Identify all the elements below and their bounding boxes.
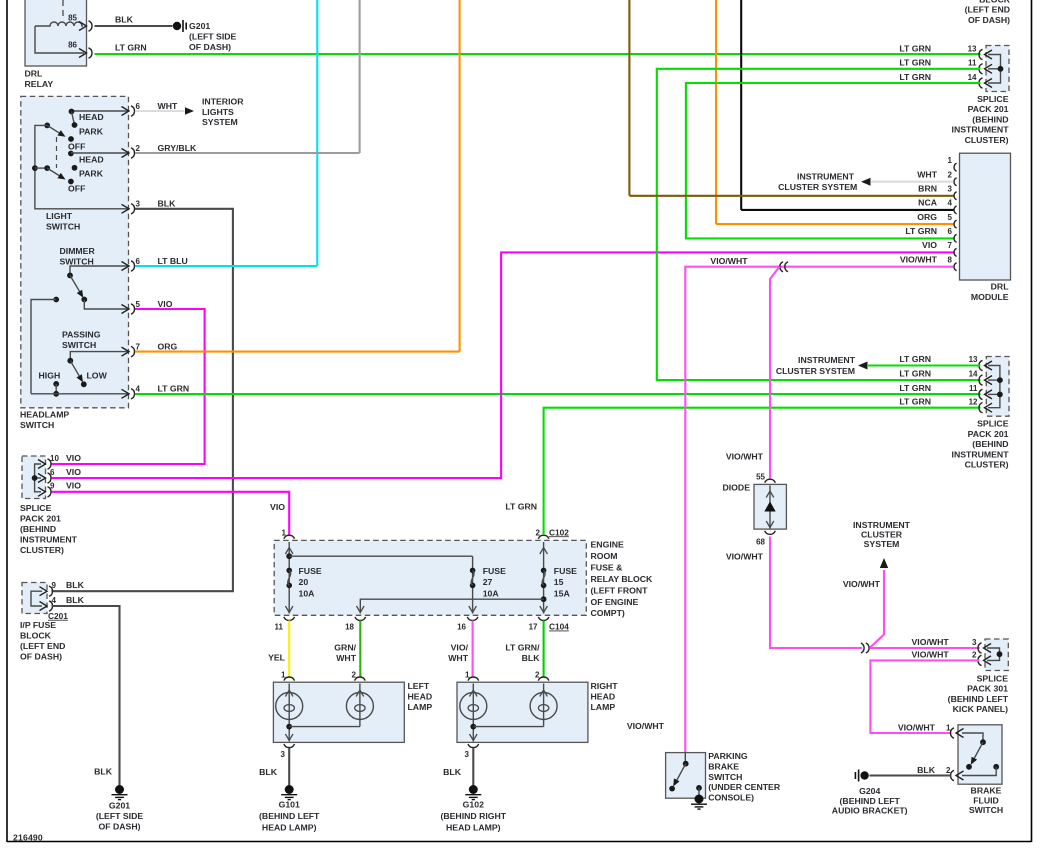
svg-text:3: 3	[281, 750, 286, 759]
pin18 down arrow	[357, 606, 365, 613]
wire VIO pin5 to splice pack 201 pin 10	[52, 309, 205, 464]
svg-text:INSTRUMENT: INSTRUMENT	[798, 355, 856, 365]
parking brake blade arrow	[670, 778, 679, 788]
svg-text:WHT: WHT	[158, 101, 178, 111]
DRL module pin 7 arc	[954, 248, 957, 256]
svg-text:2: 2	[948, 171, 953, 180]
splice BR pin 14 connector	[979, 375, 992, 385]
dimmer lower contact to pin5	[84, 300, 129, 310]
diode pin 55 connector	[765, 479, 776, 483]
right lamp junction	[470, 724, 476, 730]
headlamp switch box	[21, 96, 129, 407]
DRL module pin 2 arc	[954, 178, 957, 186]
parking brake ground symbol	[691, 795, 707, 810]
svg-text:1: 1	[948, 156, 953, 165]
svg-text:BLK: BLK	[66, 580, 85, 590]
splice BR pin 11 connector	[979, 389, 992, 399]
fuse block internal wire to pin 18	[360, 599, 543, 613]
svg-text:LT GRN: LT GRN	[899, 369, 931, 379]
left lamp bulb 2	[346, 693, 373, 720]
svg-text:1: 1	[946, 724, 951, 733]
DRL module pin 3 arc	[954, 192, 957, 200]
splice pack 201 left box	[22, 456, 46, 499]
inline connector before splice 301	[861, 643, 869, 653]
wire LT GRN splice TR pin11 to splice BR pin14	[657, 69, 981, 380]
light switch common contact	[44, 123, 50, 129]
svg-text:VIO/WHT: VIO/WHT	[843, 579, 881, 589]
ground G101 symbol	[281, 785, 297, 800]
svg-text:14: 14	[968, 73, 977, 82]
DRL module pin 8 arc	[954, 263, 957, 271]
svg-text:CLUSTER SYSTEM: CLUSTER SYSTEM	[776, 366, 855, 376]
svg-text:DIMMERSWITCH: DIMMERSWITCH	[60, 246, 96, 266]
parking brake top contact	[683, 761, 689, 767]
svg-text:C102: C102	[549, 527, 569, 537]
left lamp bulb1 internal line	[288, 684, 290, 742]
wire BLK left lamp pin3 to G101	[288, 748, 290, 786]
splice TR bracket middle stub	[988, 68, 1001, 70]
wire VIO/WHT fuse block pin16 to right head lamp	[472, 621, 474, 678]
svg-text:VIO/WHT: VIO/WHT	[912, 650, 950, 660]
fuse15 down arrow	[540, 606, 548, 613]
svg-text:10: 10	[50, 454, 59, 463]
svg-text:2: 2	[535, 671, 540, 680]
parking brake right contact	[696, 785, 702, 791]
dimmer common contact	[53, 297, 59, 303]
svg-text:LT GRN: LT GRN	[899, 383, 931, 393]
fuse 20 internal vertical	[288, 542, 290, 614]
brake fluid right contact	[993, 764, 999, 770]
wire ORG vertical from top edge to DRL module	[715, 0, 717, 224]
svg-text:LT GRN: LT GRN	[899, 58, 931, 68]
ground G102 symbol	[465, 785, 481, 800]
fuse block pin 2 connector	[538, 535, 549, 539]
right lamp bulb 2	[530, 693, 557, 720]
svg-text:HIGH: HIGH	[39, 371, 61, 381]
parking brake switch box	[666, 753, 706, 799]
svg-text:INSTRUMENT: INSTRUMENT	[797, 171, 855, 181]
svg-text:16: 16	[457, 623, 466, 632]
wire ORG DRL pin5	[716, 223, 954, 225]
left lamp internal ground bus	[289, 726, 360, 728]
splice left pin 10 connector	[38, 459, 51, 469]
passing blade arrow	[76, 374, 85, 384]
left lamp pin 1 connector	[284, 677, 295, 681]
relay pin 86 connector	[79, 48, 92, 58]
fuse block pin 11 connector	[284, 617, 295, 621]
splice 301 bracket	[987, 648, 1000, 660]
DRL module pin 1 arc	[954, 163, 957, 171]
fuse block pin 18 connector	[355, 617, 366, 621]
right lamp pin 1 connector	[468, 677, 479, 681]
svg-text:86: 86	[68, 41, 77, 50]
svg-text:VIO/WHT: VIO/WHT	[726, 452, 764, 462]
fuse20 down arrow	[285, 606, 293, 613]
splice BR junction 14	[997, 377, 1003, 383]
wire VIO/WHT DRL pin8 to parking brake switch	[685, 267, 953, 753]
svg-text:11: 11	[969, 384, 978, 393]
svg-text:VIO: VIO	[66, 453, 81, 463]
svg-text:216490: 216490	[13, 833, 43, 843]
wire LT GRN pin4 to splice pack 201 pin 11	[135, 393, 981, 395]
engine room fuse & relay block box	[274, 540, 586, 615]
ground G201 lower symbol	[112, 785, 128, 800]
svg-text:VIO/WHT: VIO/WHT	[900, 255, 938, 265]
wire BLK I/P pin4 to G201 ground	[52, 606, 120, 786]
svg-text:2: 2	[352, 671, 357, 680]
light switch pin6 internal wire	[72, 110, 130, 112]
svg-text:BLK: BLK	[66, 595, 85, 605]
svg-text:PARK: PARK	[79, 127, 104, 137]
svg-text:DIODE: DIODE	[722, 483, 750, 493]
wire LT GRN splice 201 pin12 to fuse block pin 2	[544, 408, 981, 535]
wire BLK G204 to brake fluid pin 2	[870, 774, 952, 776]
splice TR pin 13 connector	[979, 49, 992, 59]
splice BR stub 14	[988, 379, 1000, 381]
brake fluid pin 1 connector	[950, 728, 963, 738]
svg-text:CLUSTER SYSTEM: CLUSTER SYSTEM	[778, 182, 857, 192]
instrument cluster arrow middle	[858, 362, 868, 370]
right lamp internal ground bus	[473, 726, 543, 728]
svg-text:BLK: BLK	[259, 767, 278, 777]
wire GRY/BLK pin2 up to top edge	[135, 152, 360, 154]
svg-text:68: 68	[756, 537, 765, 546]
passing pin7 internal wire	[70, 352, 129, 361]
svg-text:14: 14	[969, 370, 978, 379]
fuse block pin 16 connector	[467, 617, 478, 621]
brake fluid pin 2 connector	[950, 770, 963, 780]
relay pin 85 connector	[79, 21, 92, 31]
headlamp switch pin 6 dimmer connector	[122, 261, 135, 271]
fuse 27 element	[470, 568, 476, 589]
splice BR junction 11	[997, 392, 1003, 398]
light switch pole2 blade	[47, 168, 63, 178]
splice 301 pin 3 connector	[978, 643, 991, 653]
DRL module pin 4 arc	[954, 206, 957, 214]
svg-text:VIO/WHT: VIO/WHT	[726, 552, 764, 562]
parking brake internal stub	[684, 753, 686, 764]
light switch pole2 common junction	[32, 165, 38, 171]
ground G204 symbol	[855, 770, 868, 782]
diode pin 68 connector	[765, 531, 776, 535]
splice BR pin 12 connector	[979, 403, 992, 413]
splice TR pin 14 connector	[979, 78, 992, 88]
svg-text:VIO/WHT: VIO/WHT	[710, 256, 748, 266]
I/P fuse block pin 4 connector	[40, 601, 53, 611]
wire LT GRN splice BR pin13 to instrument cluster	[868, 364, 981, 366]
fuse block pin 1 connector	[284, 535, 295, 539]
brake fluid blade arrow	[968, 757, 977, 767]
fuse 15 output junction	[541, 596, 547, 602]
headlamp switch pin 5 connector	[122, 304, 135, 314]
wire YEL fuse 20 to left head lamp	[288, 621, 290, 678]
left lamp bulb2 up arrow	[356, 690, 364, 697]
left head lamp box	[273, 682, 404, 742]
svg-text:2: 2	[136, 144, 141, 153]
wire LT GRN relay 86 to splice pack 201 pin 13	[95, 53, 981, 55]
I/P fuse block internal bracket	[31, 591, 42, 606]
headlamp switch pin 6 connector	[122, 106, 135, 116]
svg-text:PASSINGSWITCH: PASSINGSWITCH	[62, 330, 101, 350]
wire LT GRN/BLK fuse block pin17 to right head lamp	[543, 621, 545, 678]
brake fluid lower contact	[966, 764, 972, 770]
svg-text:9: 9	[52, 581, 57, 590]
svg-text:HEAD: HEAD	[79, 112, 104, 122]
light switch pin2 internal wire	[71, 152, 129, 154]
svg-text:LT GRN: LT GRN	[899, 396, 931, 406]
wire WHT DRL pin2 to instrument cluster	[871, 181, 954, 183]
wire BRN vertical from top edge	[628, 0, 630, 196]
relay coil return wire	[35, 26, 84, 53]
I/P fuse block pin 9 connector	[40, 586, 53, 596]
svg-text:4: 4	[52, 596, 57, 605]
svg-text:BRAKEFLUIDSWITCH: BRAKEFLUIDSWITCH	[969, 786, 1003, 815]
dimmer top contact	[67, 273, 73, 279]
brake fluid internal pin2 wire	[962, 767, 996, 776]
svg-text:2: 2	[536, 528, 541, 537]
right lamp bulb2 internal line	[543, 684, 545, 727]
svg-text:LT GRN: LT GRN	[115, 43, 147, 53]
splice left internal bracket	[35, 464, 41, 492]
splice left junction	[32, 475, 38, 481]
svg-text:BRN: BRN	[918, 184, 937, 194]
ground G201 upper symbol	[173, 20, 186, 32]
splice BR pin 13 connector	[979, 360, 992, 370]
light switch OFF contact	[68, 136, 74, 142]
svg-text:LT GRN: LT GRN	[505, 501, 537, 511]
right lamp bulb2 up arrow	[540, 690, 548, 697]
left lamp junction	[286, 724, 292, 730]
svg-text:GRN/WHT: GRN/WHT	[334, 643, 356, 663]
splice 301 pin 2 connector	[978, 655, 991, 665]
left lamp bulb1 up arrow	[285, 690, 293, 697]
svg-text:BLK: BLK	[443, 767, 462, 777]
interior lights system arrow	[185, 107, 194, 115]
svg-text:C104: C104	[549, 622, 569, 632]
brake fluid switch box	[958, 725, 1002, 784]
fuse 15 element	[541, 568, 547, 589]
right lamp bulb1 up arrow	[470, 690, 478, 697]
dimmer common bus to pin4 bus	[31, 300, 56, 394]
headlamp switch pin 7 connector	[122, 346, 135, 356]
svg-text:LEFTHEADLAMP: LEFTHEADLAMP	[408, 681, 433, 712]
diode triangle	[764, 502, 775, 512]
instrument cluster arrow upper	[861, 178, 871, 186]
svg-text:85: 85	[68, 14, 77, 23]
svg-text:OFF: OFF	[68, 184, 85, 194]
light switch common bus wire	[35, 125, 129, 208]
svg-text:3: 3	[465, 750, 470, 759]
fuse27 down arrow	[469, 606, 477, 613]
wire WHT pin6 to interior lights system	[135, 110, 185, 112]
splice BR bracket	[988, 366, 1000, 408]
svg-text:18: 18	[345, 623, 354, 632]
svg-text:VIO/WHT: VIO/WHT	[912, 637, 950, 647]
svg-text:ORG: ORG	[158, 342, 178, 352]
fuse block junction pin1	[286, 553, 292, 559]
svg-text:NCA: NCA	[918, 198, 938, 208]
passing top contact	[67, 358, 73, 364]
svg-text:1: 1	[282, 528, 287, 537]
fuse 20 element	[286, 568, 292, 589]
svg-text:OFF: OFF	[68, 142, 85, 152]
inline connector on pin8 wire	[780, 262, 788, 272]
headlamp switch pin 3 connector	[122, 204, 135, 214]
splice TR pin 11 connector	[979, 64, 992, 74]
relay mechanical link dashes	[62, 0, 64, 20]
left lamp pin 2 connector	[355, 677, 366, 681]
wire NCA vertical from top edge	[740, 0, 742, 210]
splice left pin 6 connector	[38, 473, 51, 483]
svg-text:GRY/BLK: GRY/BLK	[158, 143, 197, 153]
left lamp bulb2 internal line	[359, 684, 361, 727]
svg-text:LT GRN: LT GRN	[899, 72, 931, 82]
svg-text:VIO/WHT: VIO/WHT	[898, 723, 936, 733]
svg-text:BLK: BLK	[917, 765, 936, 775]
wire BRN DRL pin3	[629, 195, 953, 197]
light switch HEAD contact	[69, 109, 75, 115]
border frame right	[1031, 0, 1033, 842]
svg-text:5: 5	[136, 300, 141, 309]
svg-text:11: 11	[968, 59, 977, 68]
passing HIGH contact	[53, 381, 59, 387]
passing common bus to pin 4	[31, 393, 129, 395]
right lamp bulb1 internal line	[472, 684, 474, 742]
dimmer blade arrow	[77, 290, 86, 300]
svg-text:9: 9	[50, 482, 55, 491]
svg-text:VIO: VIO	[922, 240, 937, 250]
svg-text:3: 3	[948, 185, 953, 194]
svg-text:1: 1	[465, 671, 470, 680]
headlamp switch pin 4 connector	[122, 389, 135, 399]
light switch pole2 blade arrow	[57, 173, 67, 182]
splice 301 junction	[997, 651, 1003, 657]
parking brake ground stub	[698, 788, 700, 798]
svg-text:17: 17	[529, 623, 538, 632]
parking brake lower contact	[669, 786, 675, 792]
svg-text:6: 6	[136, 102, 141, 111]
fuse block pin 17 connector	[538, 617, 549, 621]
svg-text:6: 6	[948, 227, 953, 236]
instrument cluster arrow lower (up)	[880, 558, 888, 568]
splice pack 301 box	[985, 639, 1008, 671]
brake fluid internal pin1 wire	[962, 733, 983, 742]
svg-text:4: 4	[948, 199, 953, 208]
light switch pole2 OFF contact	[68, 179, 74, 185]
right lamp bulb 1	[460, 693, 487, 720]
right head lamp box	[457, 682, 588, 742]
svg-text:5: 5	[948, 213, 953, 222]
wire ORG vertical passing switch to top edge	[459, 0, 461, 352]
headlamp switch pin 2 connector	[122, 148, 135, 158]
splice TR junction	[998, 66, 1004, 72]
svg-text:VIO/WHT: VIO/WHT	[627, 721, 665, 731]
svg-text:LT GRN: LT GRN	[158, 384, 190, 394]
svg-text:4: 4	[136, 385, 141, 394]
right lamp pin 2 connector	[538, 677, 549, 681]
diode internal line	[769, 486, 771, 529]
passing HIGH junction	[53, 391, 59, 397]
light switch pole2 common contact	[44, 165, 50, 171]
wire VIO/WHT connector to splice 301 pin 3	[870, 647, 980, 649]
wire VIO/WHT diode to splice 301 pin3	[770, 537, 862, 649]
fuse20 up arrow	[285, 548, 293, 555]
svg-text:BLK: BLK	[158, 199, 177, 209]
wire LT BLU vertical to top edge	[316, 0, 318, 266]
splice BR stub 11	[988, 393, 1000, 395]
svg-text:3: 3	[136, 200, 141, 209]
right lamp bulb1 down arrow	[470, 734, 478, 741]
wire LT BLU pin6 to top edge	[135, 265, 317, 267]
wire NCA DRL pin4	[741, 209, 953, 211]
svg-text:8: 8	[948, 256, 953, 265]
svg-text:RIGHTHEADLAMP: RIGHTHEADLAMP	[591, 681, 619, 712]
svg-text:VIO/WHT: VIO/WHT	[448, 643, 468, 663]
diode down arrow	[766, 521, 774, 528]
svg-text:VIO: VIO	[66, 467, 81, 477]
splice TR bracket	[988, 55, 1001, 84]
svg-text:3: 3	[972, 638, 977, 647]
fuse15 up arrow	[540, 548, 548, 555]
wire VIO splice pin9 to fuse 20	[52, 492, 290, 535]
left lamp bulb1 down arrow	[285, 734, 293, 741]
svg-text:1: 1	[281, 671, 286, 680]
svg-text:VIO: VIO	[158, 299, 173, 309]
wire GRY/BLK vertical to top edge	[359, 0, 361, 153]
passing HIGH stub	[55, 384, 57, 394]
svg-text:6: 6	[136, 257, 141, 266]
dimmer blade	[70, 275, 82, 295]
relay coil winding	[35, 22, 83, 26]
wire BLK relay 85 to G201	[95, 25, 173, 27]
svg-text:(LEFT ENDOF DASH): (LEFT ENDOF DASH)	[965, 5, 1010, 25]
splice pack 201 bottom-right box	[986, 357, 1009, 417]
svg-text:11: 11	[275, 623, 284, 632]
fuse 15 internal vertical	[543, 542, 545, 614]
svg-text:HEAD: HEAD	[79, 155, 104, 165]
fuse 27 internal vertical	[472, 556, 474, 613]
svg-text:LT GRN: LT GRN	[905, 226, 937, 236]
splice left bracket pin6 stub	[35, 477, 41, 479]
svg-text:7: 7	[948, 241, 953, 250]
wire LT GRN splice TR pin14 to DRL module pin6	[686, 83, 981, 238]
wire BLK pin3 to I/P fuse block pin 9	[52, 209, 233, 591]
svg-text:55: 55	[756, 472, 765, 481]
passing blade	[70, 361, 81, 380]
svg-text:13: 13	[969, 355, 978, 364]
svg-text:LT GRN: LT GRN	[899, 43, 931, 53]
light switch PARK contact	[72, 122, 78, 128]
light switch pole2 PARK contact	[72, 165, 78, 171]
svg-text:2: 2	[972, 651, 977, 660]
svg-text:VIO: VIO	[66, 481, 81, 491]
brake fluid top contact	[980, 739, 986, 745]
wire VIO/WHT branch to diode	[770, 267, 780, 479]
svg-text:7: 7	[136, 343, 141, 352]
DRL module pin 5 arc	[954, 220, 957, 228]
dimmer lower contact	[81, 297, 87, 303]
light switch blade	[47, 125, 63, 135]
passing LOW contact	[81, 381, 87, 387]
svg-text:PARK: PARK	[79, 169, 104, 179]
border frame left	[6, 0, 8, 842]
svg-text:6: 6	[50, 468, 55, 477]
svg-text:LT BLU: LT BLU	[158, 256, 188, 266]
border frame bottom	[7, 841, 1032, 843]
light switch HEAD-PARK link	[72, 112, 75, 126]
svg-text:ORG: ORG	[917, 212, 937, 222]
right lamp pin 3 connector	[468, 744, 479, 748]
